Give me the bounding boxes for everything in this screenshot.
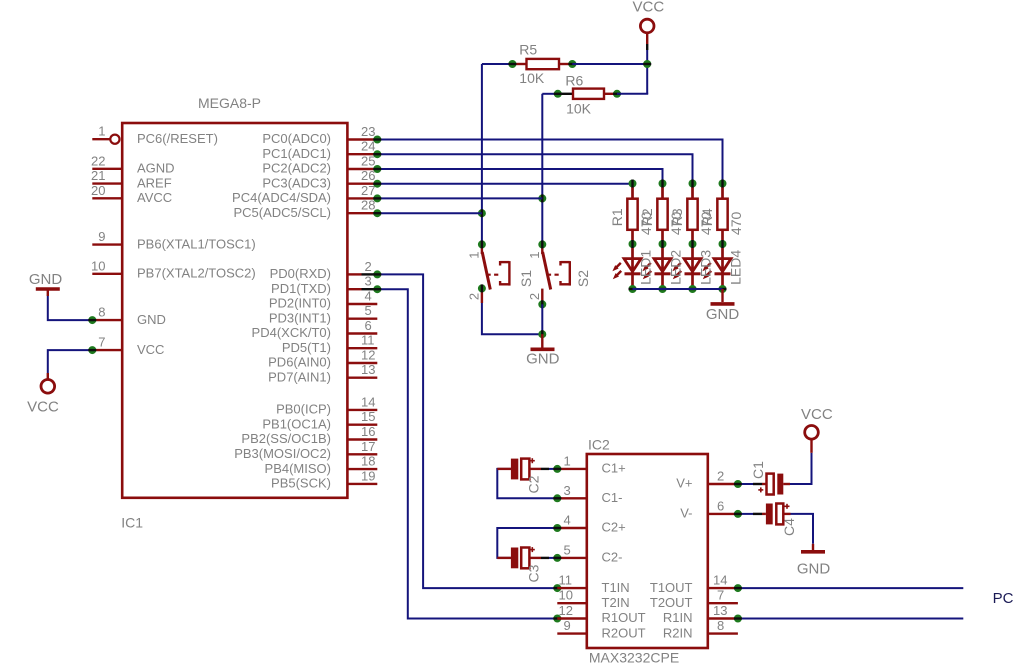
svg-text:4: 4 bbox=[564, 513, 571, 528]
IC1 MEGA8-P body bbox=[122, 123, 347, 498]
svg-text:11: 11 bbox=[361, 333, 375, 348]
junction R6 left pin bbox=[554, 90, 562, 98]
IC1 pin 28 (PC5(ADC5/SCL)) bbox=[233, 198, 377, 220]
svg-text:C4: C4 bbox=[781, 518, 797, 536]
IC1 pin 24 (PC1(ADC1)) bbox=[262, 139, 377, 161]
IC2 pin 4 (C2+) bbox=[557, 513, 625, 535]
junction IC2 pin5 bbox=[553, 554, 561, 562]
wire R6-right to VCC vertical bbox=[617, 93, 648, 95]
svg-text:470: 470 bbox=[728, 212, 744, 236]
svg-text:18: 18 bbox=[361, 454, 375, 469]
svg-text:R2OUT: R2OUT bbox=[602, 625, 646, 640]
IC1 pin 20 (AVCC) bbox=[91, 183, 172, 205]
IC2 pin 10 (T2IN) bbox=[557, 588, 629, 610]
wire net PC5 vertical R5 to S1 bbox=[481, 64, 483, 244]
junction LED1 bottom bbox=[629, 285, 637, 293]
svg-text:PC0(ADC0): PC0(ADC0) bbox=[262, 131, 331, 146]
svg-text:C3: C3 bbox=[526, 564, 542, 582]
wire net RXD IC1-pin2 to IC2-pin11 bbox=[377, 274, 556, 588]
wire VCC to IC1 pin7 bbox=[48, 350, 93, 373]
wire C2 right plate to pin1 bbox=[549, 468, 557, 470]
svg-text:PD6(AIN0): PD6(AIN0) bbox=[268, 355, 331, 370]
junction switches GND node bbox=[538, 330, 546, 338]
junction IC2 pin12 bbox=[553, 615, 561, 623]
svg-text:13: 13 bbox=[713, 603, 727, 618]
junction S1 pin2 bbox=[478, 284, 486, 292]
svg-text:4: 4 bbox=[365, 289, 372, 304]
svg-text:C1+: C1+ bbox=[602, 461, 626, 476]
IC2 pin 11 (T1IN) bbox=[557, 573, 629, 595]
resistor R5 bbox=[512, 42, 572, 86]
svg-text:R1: R1 bbox=[609, 208, 625, 226]
svg-text:1: 1 bbox=[467, 252, 482, 259]
wire C3 right plate to pin5 bbox=[549, 557, 557, 559]
svg-text:T2IN: T2IN bbox=[602, 595, 630, 610]
IC1 pin 5 (PD3(INT1)) bbox=[269, 303, 377, 325]
svg-text:14: 14 bbox=[713, 573, 727, 588]
wire pin27 to S2/R6 node bbox=[377, 197, 542, 199]
svg-text:T1OUT: T1OUT bbox=[650, 580, 693, 595]
label value 470 of R3 bbox=[698, 212, 714, 236]
svg-text:23: 23 bbox=[361, 124, 375, 139]
svg-text:10K: 10K bbox=[519, 70, 545, 86]
junction LED3 top bbox=[689, 180, 697, 188]
junction IC1 pin8 bbox=[88, 316, 96, 324]
svg-text:GND: GND bbox=[137, 312, 166, 327]
junction S1 pin1 bbox=[478, 240, 486, 248]
svg-text:PB5(SCK): PB5(SCK) bbox=[271, 476, 331, 491]
switch S1 bbox=[467, 244, 535, 303]
svg-text:24: 24 bbox=[361, 139, 375, 154]
IC1 part label MEGA8-P bbox=[198, 95, 261, 111]
junction R5 right pin bbox=[568, 60, 576, 68]
svg-text:GND: GND bbox=[706, 306, 740, 323]
svg-text:20: 20 bbox=[91, 183, 105, 198]
junction pin23 bbox=[373, 136, 381, 144]
svg-text:9: 9 bbox=[564, 618, 571, 633]
IC1 pin 14 (PB0(ICP)) bbox=[276, 394, 377, 416]
svg-text:2: 2 bbox=[365, 259, 372, 274]
wire net PC5 R5-left to vertical bbox=[482, 63, 513, 65]
svg-text:PB1(OC1A): PB1(OC1A) bbox=[262, 416, 331, 431]
svg-text:VCC: VCC bbox=[801, 406, 833, 423]
svg-text:V+: V+ bbox=[676, 476, 692, 491]
svg-text:VCC: VCC bbox=[633, 0, 665, 16]
IC1 pin 9 (PB6(XTAL1/TOSC1)) bbox=[92, 229, 255, 251]
capacitor C2 bbox=[497, 458, 549, 493]
svg-text:R2IN: R2IN bbox=[663, 625, 693, 640]
svg-text:T1IN: T1IN bbox=[602, 580, 630, 595]
svg-text:C2-: C2- bbox=[602, 550, 623, 565]
svg-text:R3: R3 bbox=[669, 208, 685, 226]
svg-text:13: 13 bbox=[361, 362, 375, 377]
svg-text:10: 10 bbox=[91, 258, 105, 273]
svg-text:6: 6 bbox=[717, 498, 724, 513]
svg-text:11: 11 bbox=[559, 573, 573, 588]
junction pin26 bbox=[373, 180, 381, 188]
label R1 bbox=[609, 208, 625, 226]
junction LED1 mid bbox=[629, 240, 637, 248]
svg-text:8: 8 bbox=[717, 618, 724, 633]
junction LED1 top bbox=[629, 180, 637, 188]
wire net T1OUT to PC bbox=[738, 587, 963, 589]
junction IC2 pin1 bbox=[553, 465, 561, 473]
svg-text:S2: S2 bbox=[575, 270, 591, 287]
svg-text:PB0(ICP): PB0(ICP) bbox=[276, 402, 331, 417]
IC1 pin 2 (PD0(RXD)) bbox=[270, 259, 378, 281]
junction LED2 bottom bbox=[659, 285, 667, 293]
svg-text:VCC: VCC bbox=[27, 399, 59, 416]
label value 470 of R2 bbox=[668, 212, 684, 236]
svg-text:C2+: C2+ bbox=[602, 520, 626, 535]
wire pin24 to LED3 column bbox=[377, 154, 692, 183]
svg-text:8: 8 bbox=[98, 305, 105, 320]
junction pin25 bbox=[373, 165, 381, 173]
wire net R1IN to PC bbox=[738, 618, 963, 620]
resistor R3 470 + LED LED3 column bbox=[672, 184, 701, 290]
svg-text:1: 1 bbox=[527, 252, 542, 259]
label LED4 bbox=[728, 250, 744, 285]
junction pin24 bbox=[373, 150, 381, 158]
svg-text:PC: PC bbox=[993, 590, 1014, 607]
resistor R4 470 + LED LED4 column bbox=[702, 184, 731, 290]
junction VCC/R5 node bbox=[643, 60, 651, 68]
IC1 pin 22 (AGND) bbox=[91, 153, 175, 175]
svg-text:V-: V- bbox=[680, 506, 692, 521]
junction IC2 pin6 bbox=[734, 510, 742, 518]
svg-text:PB2(SS/OC1B): PB2(SS/OC1B) bbox=[241, 431, 331, 446]
label R2 bbox=[639, 208, 655, 226]
svg-text:PB6(XTAL1/TOSC1): PB6(XTAL1/TOSC1) bbox=[137, 236, 256, 251]
svg-text:R5: R5 bbox=[519, 42, 537, 58]
svg-text:PC4(ADC4/SDA): PC4(ADC4/SDA) bbox=[232, 190, 331, 205]
svg-text:7: 7 bbox=[717, 588, 724, 603]
svg-text:C1-: C1- bbox=[602, 490, 623, 505]
junction IC2 pin13 bbox=[734, 615, 742, 623]
svg-text:1: 1 bbox=[98, 124, 105, 139]
wire pin6 to C4 left plate bbox=[738, 513, 753, 515]
wire C4 right plate to GND bbox=[791, 514, 814, 544]
IC2 pin 3 (C1-) bbox=[557, 483, 622, 505]
IC2 pin 8 (R2IN) bbox=[663, 618, 738, 640]
svg-text:LED2: LED2 bbox=[668, 250, 684, 285]
junction IC2 pin4 bbox=[553, 524, 561, 532]
junction S2 pin1 bbox=[538, 240, 546, 248]
junction IC1 pin2 bbox=[373, 270, 381, 278]
ground GND below C4 bbox=[797, 544, 831, 578]
label R3 bbox=[669, 208, 685, 226]
svg-text:10: 10 bbox=[559, 588, 573, 603]
junction S2 pin2 bbox=[538, 300, 546, 308]
IC2 pin 5 (C2-) bbox=[557, 542, 622, 564]
svg-text:C2: C2 bbox=[526, 475, 542, 493]
label LED1 bbox=[638, 250, 654, 285]
IC1 pin 17 (PB3(MOSI/OC2)) bbox=[234, 439, 377, 461]
wire pin28 to S1/R5 node bbox=[377, 212, 482, 214]
svg-text:6: 6 bbox=[365, 318, 372, 333]
junction IC2 pin2 bbox=[734, 480, 742, 488]
wire pin26 to LED1 column bbox=[377, 183, 632, 185]
label LED2 bbox=[668, 250, 684, 285]
svg-text:19: 19 bbox=[361, 468, 375, 483]
junction LED3 bottom bbox=[689, 285, 697, 293]
svg-text:GND: GND bbox=[526, 350, 560, 367]
junction LED3 mid bbox=[689, 240, 697, 248]
junction LED2 mid bbox=[659, 240, 667, 248]
wire pin23 to LED4 column bbox=[377, 140, 722, 184]
junction pin27 bbox=[373, 194, 381, 202]
capacitor C4 bbox=[753, 504, 797, 536]
net label PC bbox=[993, 590, 1014, 607]
wire GND to IC1 pin8 bbox=[48, 296, 93, 320]
wire VCC vertical drop bbox=[646, 50, 648, 94]
wire S1 pin2 to GND rail bbox=[482, 303, 542, 334]
junction R5 left pin bbox=[508, 60, 516, 68]
junction IC1 pin3 bbox=[373, 285, 381, 293]
svg-text:PC3(ADC3): PC3(ADC3) bbox=[262, 175, 331, 190]
IC1 pin 18 (PB4(MISO)) bbox=[265, 454, 378, 476]
svg-text:PD2(INT0): PD2(INT0) bbox=[269, 296, 331, 311]
junction IC2 pin3 bbox=[553, 494, 561, 502]
svg-text:T2OUT: T2OUT bbox=[650, 595, 693, 610]
svg-text:MEGA8-P: MEGA8-P bbox=[198, 95, 261, 111]
junction R6 right pin bbox=[613, 90, 621, 98]
wire pin4 to C3 left plate bbox=[497, 528, 556, 558]
wire pin25 to LED2 column bbox=[377, 169, 662, 184]
IC1 pin 1 (PC6(/RESET)) bbox=[92, 124, 218, 146]
svg-text:PD1(TXD): PD1(TXD) bbox=[271, 281, 331, 296]
svg-text:25: 25 bbox=[361, 154, 375, 169]
svg-text:VCC: VCC bbox=[137, 342, 164, 357]
svg-text:R6: R6 bbox=[565, 72, 583, 88]
svg-text:R1IN: R1IN bbox=[663, 610, 693, 625]
svg-text:PD4(XCK/T0): PD4(XCK/T0) bbox=[252, 325, 331, 340]
IC1 pin 16 (PB2(SS/OC1B)) bbox=[241, 424, 377, 446]
svg-text:AGND: AGND bbox=[137, 161, 175, 176]
IC1 pin 8 (GND) bbox=[92, 305, 166, 327]
IC1 pin 25 (PC2(ADC2)) bbox=[262, 154, 377, 176]
IC1 pin 26 (PC3(ADC3)) bbox=[262, 168, 377, 190]
wire net PC4 vertical R6 to S2 bbox=[541, 94, 543, 245]
svg-text:PD7(AIN1): PD7(AIN1) bbox=[268, 369, 331, 384]
wire C1 right plate to VCC bbox=[790, 453, 812, 484]
svg-text:PB4(MISO): PB4(MISO) bbox=[265, 461, 331, 476]
IC2 part label MAX3232CPE bbox=[589, 650, 679, 666]
IC1 pin 4 (PD2(INT0)) bbox=[269, 289, 377, 311]
svg-text:5: 5 bbox=[564, 542, 571, 557]
IC2 pin 12 (R1OUT) bbox=[557, 603, 645, 625]
IC1 pin 10 (PB7(XTAL2/TOSC2)) bbox=[91, 258, 256, 280]
wire R5-right to VCC vertical bbox=[572, 63, 647, 65]
wire S2 pin2 down bbox=[541, 304, 543, 334]
label R4 bbox=[699, 208, 715, 226]
svg-text:10K: 10K bbox=[566, 101, 592, 117]
svg-text:14: 14 bbox=[361, 394, 375, 409]
svg-text:PD3(INT1): PD3(INT1) bbox=[269, 310, 331, 325]
svg-text:LED3: LED3 bbox=[698, 250, 714, 285]
svg-text:PC5(ADC5/SCL): PC5(ADC5/SCL) bbox=[233, 205, 331, 220]
IC1 pin 6 (PD4(XCK/T0)) bbox=[252, 318, 378, 340]
svg-text:2: 2 bbox=[717, 469, 724, 484]
junction PC5 pin28 node bbox=[478, 209, 486, 217]
IC1 name label bbox=[121, 515, 143, 531]
svg-text:PC1(ADC1): PC1(ADC1) bbox=[262, 146, 331, 161]
IC2 pin 2 (V+) bbox=[676, 469, 738, 491]
IC1 pin 21 (AREF) bbox=[91, 168, 172, 190]
svg-text:5: 5 bbox=[365, 303, 372, 318]
IC2 MAX3232CPE body bbox=[587, 454, 708, 648]
IC1 pin 12 (PD6(AIN0)) bbox=[268, 348, 377, 370]
supply VCC top bbox=[633, 0, 665, 50]
svg-text:LED1: LED1 bbox=[638, 250, 654, 285]
junction IC1 pin7 bbox=[88, 346, 96, 354]
svg-text:1: 1 bbox=[564, 453, 571, 468]
IC1 pin 7 (VCC) bbox=[92, 335, 164, 357]
junction IC2 pin11 bbox=[553, 584, 561, 592]
svg-text:PB7(XTAL2/TOSC2): PB7(XTAL2/TOSC2) bbox=[137, 266, 256, 281]
resistor R1 470 + LED LED1 column bbox=[612, 184, 641, 290]
switch S2 bbox=[527, 244, 591, 304]
IC1 pin 23 (PC0(ADC0)) bbox=[262, 124, 377, 146]
svg-text:12: 12 bbox=[361, 348, 375, 363]
svg-text:S1: S1 bbox=[518, 270, 534, 287]
label value 470 of R1 bbox=[638, 212, 654, 236]
svg-text:PC2(ADC2): PC2(ADC2) bbox=[262, 161, 331, 176]
wire pin2 to C1 left plate bbox=[738, 483, 753, 485]
IC2 pin 1 (C1+) bbox=[557, 453, 625, 475]
svg-text:GND: GND bbox=[797, 561, 831, 578]
svg-text:16: 16 bbox=[361, 424, 375, 439]
IC1 pin 3 (PD1(TXD)) bbox=[271, 274, 377, 296]
svg-text:3: 3 bbox=[365, 274, 372, 289]
IC2 pin 9 (R2OUT) bbox=[557, 618, 645, 640]
svg-text:GND: GND bbox=[29, 271, 63, 288]
capacitor C1 bbox=[750, 461, 790, 495]
svg-text:21: 21 bbox=[91, 168, 105, 183]
wire net PC4 corner to R6-left bbox=[542, 93, 557, 95]
wire net TXD IC1-pin3 to IC2-pin12 bbox=[377, 289, 556, 618]
junction LED4 mid bbox=[719, 240, 727, 248]
svg-text:IC2: IC2 bbox=[588, 437, 610, 453]
supply VCC bottom left bbox=[27, 373, 59, 416]
svg-text:3: 3 bbox=[564, 483, 571, 498]
junction LED2 top bbox=[659, 180, 667, 188]
junction IC2 pin14 bbox=[734, 584, 742, 592]
IC2 pin 6 (V-) bbox=[680, 498, 738, 520]
svg-text:R2: R2 bbox=[639, 208, 655, 226]
svg-text:R4: R4 bbox=[699, 208, 715, 226]
svg-text:PB3(MOSI/OC2): PB3(MOSI/OC2) bbox=[234, 446, 331, 461]
junction pin28 bbox=[373, 209, 381, 217]
ground GND below switches bbox=[526, 334, 560, 367]
svg-text:AREF: AREF bbox=[137, 175, 172, 190]
junction LED4 bottom bbox=[719, 285, 727, 293]
svg-text:27: 27 bbox=[361, 183, 375, 198]
IC2 pin 7 (T2OUT) bbox=[650, 588, 738, 610]
svg-text:R1OUT: R1OUT bbox=[602, 610, 646, 625]
capacitor C3 bbox=[497, 547, 549, 582]
svg-text:15: 15 bbox=[361, 409, 375, 424]
svg-text:LED4: LED4 bbox=[728, 250, 744, 285]
IC1 pin 11 (PD5(T1)) bbox=[282, 333, 377, 355]
supply VCC right bbox=[801, 406, 833, 453]
junction LED4 top bbox=[719, 180, 727, 188]
svg-text:AVCC: AVCC bbox=[137, 190, 172, 205]
resistor R6 bbox=[558, 72, 617, 116]
resistor R2 470 + LED LED2 column bbox=[642, 184, 671, 290]
IC1 pin 27 (PC4(ADC4/SDA)) bbox=[232, 183, 377, 205]
IC2 pin 13 (R1IN) bbox=[663, 603, 738, 625]
svg-text:12: 12 bbox=[559, 603, 573, 618]
svg-text:PD5(T1): PD5(T1) bbox=[282, 340, 331, 355]
svg-text:PC6(/RESET): PC6(/RESET) bbox=[137, 131, 218, 146]
svg-text:17: 17 bbox=[361, 439, 375, 454]
svg-text:IC1: IC1 bbox=[121, 515, 143, 531]
IC1 pin 19 (PB5(SCK)) bbox=[271, 468, 377, 490]
svg-text:28: 28 bbox=[361, 198, 375, 213]
svg-text:26: 26 bbox=[361, 168, 375, 183]
svg-text:22: 22 bbox=[91, 153, 105, 168]
ground GND at IC1 pin8 bbox=[29, 271, 63, 296]
svg-text:2: 2 bbox=[467, 293, 482, 300]
wire C2 left plate to pin3 bbox=[497, 469, 556, 498]
IC1 pin 15 (PB1(OC1A)) bbox=[262, 409, 377, 431]
IC1 pin 13 (PD7(AIN1)) bbox=[268, 362, 377, 384]
wire LED cathode rail bbox=[633, 288, 723, 290]
svg-text:9: 9 bbox=[98, 229, 105, 244]
svg-text:7: 7 bbox=[98, 335, 105, 350]
label value 470 of R4 bbox=[728, 212, 744, 236]
IC2 pin 14 (T1OUT) bbox=[650, 573, 738, 595]
svg-text:PD0(RXD): PD0(RXD) bbox=[270, 266, 331, 281]
ground GND below LEDs bbox=[706, 289, 740, 323]
svg-text:MAX3232CPE: MAX3232CPE bbox=[589, 650, 679, 666]
junction PC4 pin27 node bbox=[538, 194, 546, 202]
svg-text:2: 2 bbox=[527, 293, 542, 300]
label LED3 bbox=[698, 250, 714, 285]
IC2 name label bbox=[588, 437, 610, 453]
svg-text:C1: C1 bbox=[750, 461, 766, 479]
